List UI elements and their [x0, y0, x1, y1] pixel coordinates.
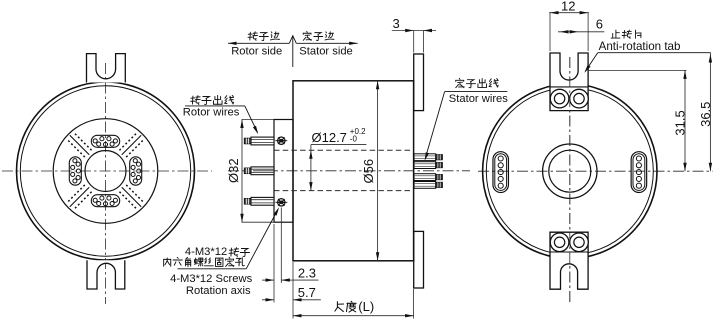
centerline horizontal right view [478, 170, 713, 172]
label anti-rotation tab [611, 30, 620, 38]
centerline vertical right view [569, 57, 571, 302]
svg-text:Stator side: Stator side [299, 46, 352, 58]
svg-text:Ø12.7: Ø12.7 [312, 130, 347, 145]
dimension 5.7 [262, 299, 274, 301]
centerline vertical right view (over tabs) [569, 57, 571, 302]
rotor wire terminals [244, 137, 274, 145]
bore hidden line bottom [274, 190, 414, 192]
dimension 12 [549, 12, 589, 14]
label stator wires [456, 78, 464, 87]
svg-text:36.5: 36.5 [698, 102, 713, 127]
shaft extension lines [242, 119, 275, 121]
diagonal section lines [122, 187, 141, 206]
label rotor side [248, 32, 257, 41]
dimension 6 [558, 31, 604, 33]
dimension Phi12.7 [310, 145, 312, 191]
bore hidden line top [274, 149, 414, 151]
outer housing circle [17, 82, 195, 260]
label stator side [303, 31, 311, 40]
hub circle [53, 119, 158, 224]
top mounting tab (left view) [87, 54, 126, 83]
dimension 31.5 [588, 69, 686, 71]
svg-text:Stator wires: Stator wires [449, 93, 508, 105]
dimension length L [293, 315, 414, 317]
dimension 3 (flange) [392, 30, 436, 32]
svg-text:5.7: 5.7 [298, 285, 316, 300]
M3 screw symbols [275, 137, 287, 144]
svg-text:4-M3*12 Screws: 4-M3*12 Screws [170, 273, 252, 285]
bottom mounting tab (left view) [87, 260, 125, 289]
left view: rotor-side face of slip ring [2, 54, 212, 304]
svg-text:Rotation axis: Rotation axis [186, 285, 251, 297]
right wire slot [631, 152, 647, 193]
wire hole groups (4 stadium slots with holes) [91, 135, 119, 147]
stator anti-rotation tab top (side view) [414, 54, 424, 111]
dimension Phi32 [241, 120, 243, 223]
svg-text:Rotor wires: Rotor wires [183, 107, 240, 119]
rotor/stator side arrows [228, 42, 289, 44]
inner housing circle [20, 86, 190, 256]
centerline horizontal left view [2, 170, 212, 172]
bottom anti-rotation tab [550, 232, 588, 289]
center bore circle [549, 150, 591, 192]
svg-text:6: 6 [596, 17, 603, 32]
stator wire bundles [414, 154, 442, 161]
center bore circle [85, 151, 126, 192]
dimension 36.5 [709, 53, 711, 172]
center boss circle [543, 144, 597, 198]
svg-text:Rotor side: Rotor side [231, 46, 282, 58]
centerline through middle terminal [253, 170, 274, 172]
inner circle right view [486, 88, 653, 255]
centerline horizontal middle view [228, 170, 470, 172]
svg-text:Ø32: Ø32 [226, 158, 241, 183]
rotor shaft [274, 120, 293, 223]
top anti-rotation tab [550, 53, 588, 111]
dimension 2.3 [262, 279, 274, 281]
outer circle right view [483, 84, 657, 258]
svg-text:Ø56: Ø56 [361, 159, 376, 184]
main body rectangle [293, 81, 414, 261]
svg-text:4-M3*12: 4-M3*12 [185, 246, 227, 258]
left wire slot [493, 152, 509, 193]
bottom tab screws [550, 233, 569, 252]
svg-text:-0: -0 [350, 135, 358, 144]
dimension Phi56 [377, 81, 379, 261]
svg-text:2.3: 2.3 [298, 266, 316, 281]
svg-text:3: 3 [393, 16, 400, 31]
middle view: cross-section side view [164, 16, 509, 318]
top tab screws [550, 89, 569, 108]
svg-text:Anti-rotation tab: Anti-rotation tab [599, 40, 681, 53]
right view: stator-side face [478, 0, 713, 302]
extension lines bottom [273, 224, 275, 303]
svg-text:12: 12 [561, 0, 575, 13]
stator anti-rotation tab bottom (side view) [414, 231, 424, 288]
svg-text:31.5: 31.5 [672, 110, 687, 135]
label rotor wires [191, 96, 201, 105]
svg-text:(L): (L) [358, 299, 374, 314]
centerline vertical left view [105, 63, 107, 304]
